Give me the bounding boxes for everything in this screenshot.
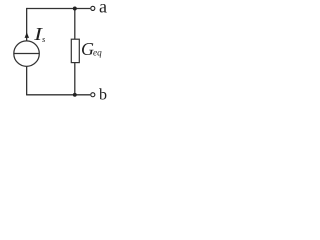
wire bottom horizontal from bottom-left corner to terminal b <box>27 94 91 96</box>
wire right vertical from G_eq box bottom to bottom junction <box>74 63 76 95</box>
terminal a open circle <box>91 6 95 10</box>
resistor box G_eq <box>71 39 79 62</box>
svg-text:eq: eq <box>93 48 102 58</box>
wire left vertical from corner down to current source top <box>26 8 28 41</box>
junction dot top <box>73 7 77 11</box>
svg-text:a: a <box>99 0 107 17</box>
svg-text:b: b <box>99 86 107 103</box>
current source Is (circle with horizontal bar) <box>14 41 40 67</box>
wire left vertical from current source bottom to bottom-left corner <box>26 66 28 95</box>
junction dot bottom <box>73 93 77 97</box>
wire right vertical from top junction to G_eq box top <box>74 9 76 40</box>
arrowhead of current source pointing up <box>25 32 30 38</box>
terminal b open circle <box>91 93 95 97</box>
wire top horizontal from top-left corner to terminal a <box>27 8 91 10</box>
